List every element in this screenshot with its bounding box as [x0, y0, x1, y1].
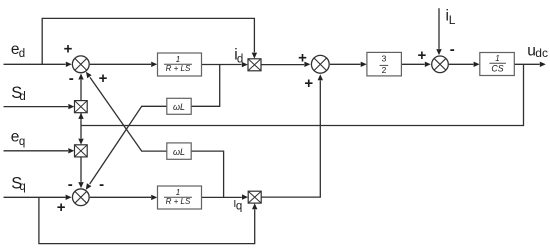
- svg-text:-: -: [69, 70, 74, 87]
- svg-text:dc: dc: [535, 46, 548, 60]
- svg-text:L: L: [449, 13, 456, 27]
- svg-text:CS: CS: [491, 63, 503, 73]
- svg-text:d: d: [19, 48, 25, 60]
- svg-text:+: +: [99, 70, 108, 87]
- svg-text:+: +: [418, 47, 427, 64]
- svg-text:2: 2: [382, 65, 387, 75]
- svg-text:ωL: ωL: [173, 102, 185, 112]
- svg-text:+: +: [57, 199, 66, 216]
- svg-text:-: -: [68, 176, 73, 193]
- svg-text:d: d: [237, 53, 243, 65]
- svg-text:+: +: [64, 40, 73, 57]
- svg-text:+: +: [298, 50, 307, 67]
- svg-text:ωL: ωL: [173, 147, 185, 157]
- svg-text:d: d: [19, 91, 25, 103]
- svg-text:+: +: [304, 75, 313, 92]
- svg-text:q: q: [236, 200, 242, 212]
- svg-text:R + LS: R + LS: [166, 197, 191, 206]
- svg-text:1: 1: [176, 188, 180, 197]
- svg-text:3: 3: [382, 53, 387, 63]
- svg-text:q: q: [19, 181, 25, 193]
- svg-text:-: -: [450, 41, 455, 58]
- svg-text:1: 1: [176, 55, 180, 64]
- svg-text:1: 1: [495, 54, 499, 63]
- svg-text:-: -: [99, 176, 104, 193]
- svg-text:q: q: [19, 136, 25, 148]
- svg-text:R + LS: R + LS: [166, 64, 191, 73]
